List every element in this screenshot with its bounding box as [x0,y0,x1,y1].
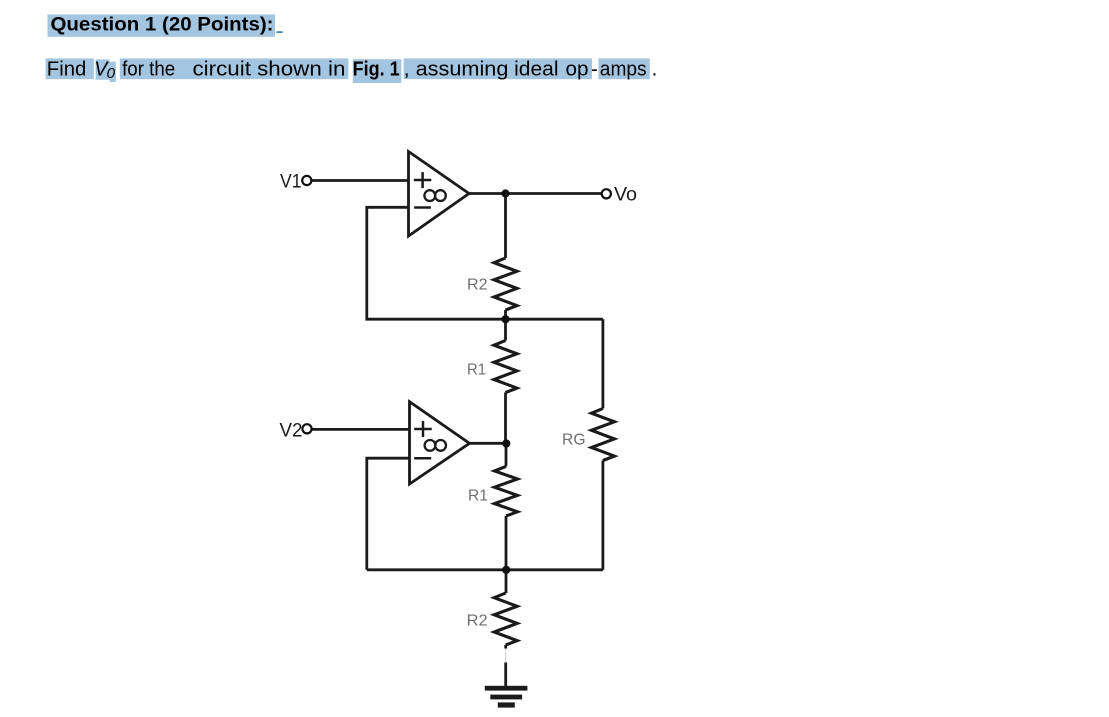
svg-text:Vo: Vo [614,184,637,206]
svg-text:Fig. 1: Fig. 1 [353,58,400,81]
svg-text:0: 0 [107,65,116,82]
svg-text:amps: amps [600,58,647,81]
svg-text:circuit shown in: circuit shown in [193,58,346,81]
svg-text:ideal: ideal [514,58,558,81]
svg-text:R2: R2 [467,277,488,294]
svg-text:R1: R1 [468,487,488,504]
svg-text:for the: for the [122,58,175,81]
svg-text:Question 1 (20 Points):: Question 1 (20 Points): [51,13,274,35]
svg-text:V1: V1 [280,170,302,192]
svg-text:op: op [566,58,589,81]
svg-text:V2: V2 [280,419,303,441]
svg-text:RG: RG [562,432,586,449]
svg-text:.: . [652,58,658,81]
svg-text:R1: R1 [467,362,486,379]
svg-text:Find: Find [47,58,87,81]
svg-text:-: - [591,58,598,81]
svg-text:R2: R2 [467,613,488,630]
svg-text:, assuming: , assuming [404,58,509,81]
